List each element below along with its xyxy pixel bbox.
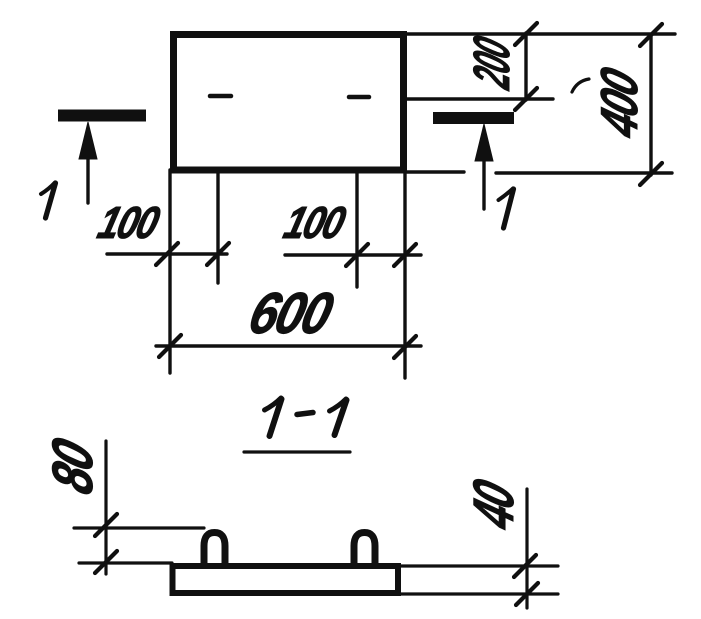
- extension line below rect: left edge: [168, 170, 171, 373]
- dimension line 40 (vertical, right): [525, 489, 528, 608]
- dimension line 80 (vertical, left): [104, 441, 107, 574]
- witness line at plate top level (left): [79, 561, 172, 564]
- tick 100-left at x=218: [207, 243, 229, 265]
- dimension text 200 (rotated): [464, 30, 521, 95]
- tick 100-right at x=405: [394, 244, 416, 266]
- witness line at loop top level: [74, 526, 204, 529]
- section cut arrow left: [79, 122, 97, 203]
- tick 600 at x=170: [159, 335, 181, 357]
- tick 40 at plate top level: [514, 555, 536, 577]
- svg-text:400: 400: [591, 61, 649, 145]
- dimension line 100 (left): [107, 252, 227, 255]
- tick 100-right at x=357: [346, 244, 368, 266]
- section title 1-1: [265, 398, 347, 436]
- plate outline (plan view rectangle): [174, 35, 404, 171]
- witness line at plate top level (right): [401, 564, 558, 567]
- dimension text 100 (left): [93, 197, 164, 247]
- section label 1 (left): [41, 183, 56, 219]
- extension line: bottom edge to 400 dimension (left part): [406, 170, 464, 173]
- dimension text 80 (rotated): [42, 431, 105, 501]
- dimension text 40 (rotated): [461, 473, 525, 537]
- section cut symbol 1 (right): thick bar: [433, 112, 514, 124]
- svg-text:200: 200: [464, 30, 521, 95]
- svg-text:100: 100: [93, 197, 164, 247]
- section cut symbol 1 (left): thick bar: [58, 110, 146, 122]
- svg-text:100: 100: [279, 197, 350, 247]
- extension line: bottom edge to 400 dimension (right part): [496, 171, 672, 174]
- dimension line 400 (vertical): [649, 35, 652, 175]
- section label 1 (right): [499, 189, 514, 229]
- tick at top of 400 dimension: [640, 24, 662, 46]
- extension line below rect: second anchor: [355, 170, 358, 287]
- dimension text 100 (right): [279, 197, 350, 247]
- svg-text:80: 80: [42, 431, 105, 501]
- anchor hole mark right (dash): [349, 95, 369, 100]
- tick 100-left at x=167: [156, 243, 178, 265]
- anchor hole mark left (dash): [210, 94, 231, 99]
- section cut arrow right: [475, 124, 493, 209]
- dimension line 600: [156, 344, 421, 347]
- tick at bottom of 200 dimension: [515, 88, 537, 110]
- tick 600 at x=405: [394, 336, 416, 358]
- extension line: top edge to 400 dimension: [406, 32, 675, 35]
- extension line at anchor level (for 200 dim): [406, 97, 553, 100]
- extension line below rect: first anchor: [216, 170, 219, 283]
- dimension line 100 (right): [285, 253, 421, 256]
- svg-text:40: 40: [461, 473, 525, 537]
- tick 80 at loop top level: [95, 514, 117, 536]
- section view: left anchor loop: [204, 533, 225, 566]
- svg-text:600: 600: [243, 280, 341, 345]
- dimension text 400 (rotated): [591, 61, 649, 145]
- underline of section title: [244, 450, 350, 453]
- dimension line 200 (vertical): [524, 33, 527, 100]
- section view: right anchor loop: [354, 533, 375, 566]
- stray arc mark near 400: [572, 79, 589, 92]
- tick 40 at plate bottom level: [516, 583, 538, 605]
- tick at top of 200 dimension: [515, 23, 537, 45]
- dimension text 600: [243, 280, 341, 345]
- witness line at plate bottom level (right): [401, 592, 558, 595]
- tick 80 at plate top level: [95, 551, 117, 573]
- tick at bottom of 400 dimension: [640, 163, 662, 185]
- extension line below rect: right edge: [403, 170, 406, 378]
- section view: plate body: [173, 566, 399, 593]
